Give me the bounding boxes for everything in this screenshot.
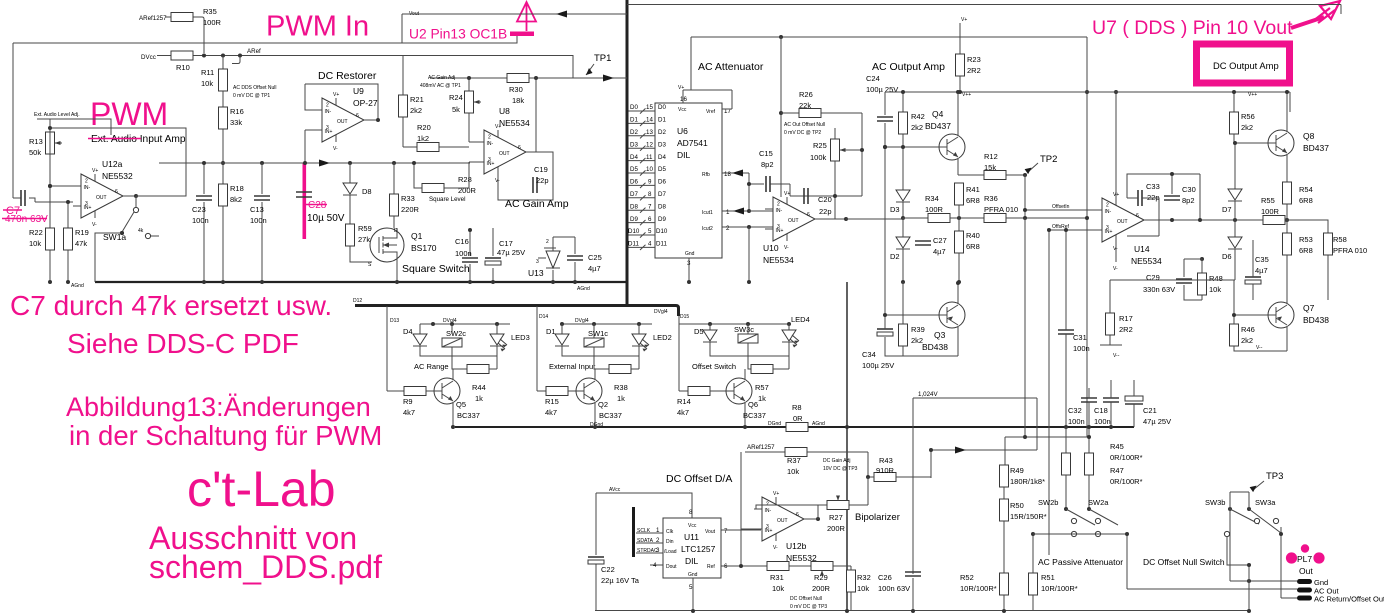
svg-text:DGnd: DGnd <box>768 421 781 427</box>
svg-text:V++: V++ <box>1248 92 1257 98</box>
svg-text:Rfb: Rfb <box>702 172 710 178</box>
svg-text:2k2: 2k2 <box>1241 336 1253 345</box>
svg-text:OffsetIn: OffsetIn <box>1052 204 1070 210</box>
svg-text:5: 5 <box>689 584 693 591</box>
svg-text:22p: 22p <box>819 207 832 216</box>
svg-text:2: 2 <box>726 225 730 232</box>
svg-text:NE5532: NE5532 <box>102 171 133 181</box>
svg-text:R14: R14 <box>677 397 691 406</box>
svg-text:DVgl4: DVgl4 <box>654 309 668 315</box>
svg-text:R31: R31 <box>770 573 784 582</box>
svg-text:AGnd: AGnd <box>577 286 590 292</box>
svg-text:4: 4 <box>648 241 652 248</box>
svg-text:47k: 47k <box>75 239 87 248</box>
svg-text:D0: D0 <box>658 104 666 111</box>
svg-text:Vout: Vout <box>705 529 716 535</box>
svg-text:/Load: /Load <box>664 549 677 555</box>
svg-text:SW3a: SW3a <box>1255 498 1276 507</box>
svg-text:C29: C29 <box>1146 273 1160 282</box>
svg-text:10: 10 <box>646 166 653 173</box>
svg-text:10µ 50V: 10µ 50V <box>307 213 345 224</box>
svg-text:NE5534: NE5534 <box>499 118 530 128</box>
svg-text:Din: Din <box>666 539 674 545</box>
svg-text:13: 13 <box>646 129 653 136</box>
svg-text:200R: 200R <box>458 186 477 195</box>
svg-text:DC Gain Adj: DC Gain Adj <box>823 458 851 464</box>
svg-text:C32: C32 <box>1068 406 1082 415</box>
svg-text:C25: C25 <box>588 253 602 262</box>
svg-text:R13: R13 <box>29 137 43 146</box>
svg-text:D8: D8 <box>658 203 666 210</box>
svg-text:12: 12 <box>646 141 653 148</box>
svg-text:C26: C26 <box>878 573 892 582</box>
svg-text:R48: R48 <box>1209 274 1223 283</box>
svg-text:U7 ( DDS ) Pin 10 Vout: U7 ( DDS ) Pin 10 Vout <box>1092 17 1293 39</box>
svg-text:8p2: 8p2 <box>761 160 774 169</box>
svg-text:D1: D1 <box>630 117 638 124</box>
svg-text:C31: C31 <box>1073 333 1087 342</box>
svg-text:C7 durch 47k ersetzt usw.: C7 durch 47k ersetzt usw. <box>10 290 332 321</box>
svg-text:Ref: Ref <box>707 564 715 570</box>
svg-text:External Input: External Input <box>549 362 596 371</box>
svg-text:DC Restorer: DC Restorer <box>318 70 377 82</box>
svg-text:2: 2 <box>546 239 549 245</box>
svg-text:BC337: BC337 <box>743 411 766 420</box>
svg-text:D8: D8 <box>630 203 638 210</box>
svg-text:ARef1257: ARef1257 <box>747 444 775 451</box>
svg-text:U8: U8 <box>499 106 510 116</box>
svg-text:27k: 27k <box>358 235 370 244</box>
svg-text:8: 8 <box>648 191 652 198</box>
svg-text:100R: 100R <box>925 205 944 214</box>
svg-text:4k: 4k <box>138 228 144 234</box>
svg-text:C33: C33 <box>1146 182 1160 191</box>
svg-text:D13: D13 <box>390 318 399 324</box>
svg-text:R49: R49 <box>1010 466 1024 475</box>
svg-text:R36: R36 <box>984 194 998 203</box>
svg-text:U13: U13 <box>528 268 544 278</box>
svg-text:D3: D3 <box>658 141 666 148</box>
svg-text:10V DC @ TP3: 10V DC @ TP3 <box>823 466 858 472</box>
svg-text:100n: 100n <box>192 216 209 225</box>
svg-text:D3: D3 <box>890 205 900 214</box>
svg-text:R17: R17 <box>1119 314 1133 323</box>
svg-text:100n: 100n <box>1094 417 1111 426</box>
svg-text:Vcc: Vcc <box>688 523 697 529</box>
svg-text:SW3b: SW3b <box>1205 498 1225 507</box>
svg-text:R55: R55 <box>1261 196 1275 205</box>
svg-text:1k2: 1k2 <box>417 134 429 143</box>
svg-text:1k: 1k <box>475 394 483 403</box>
svg-text:6R8: 6R8 <box>1299 196 1313 205</box>
svg-text:200R: 200R <box>812 584 831 593</box>
svg-text:C23: C23 <box>192 205 206 214</box>
svg-text:D11: D11 <box>628 241 639 248</box>
svg-text:AC Passive Attenuator: AC Passive Attenuator <box>1038 557 1123 567</box>
svg-text:D5: D5 <box>630 166 638 173</box>
svg-text:10k: 10k <box>1209 285 1221 294</box>
svg-text:D9: D9 <box>630 216 638 223</box>
svg-text:4µ7: 4µ7 <box>933 247 946 256</box>
svg-text:NE5534: NE5534 <box>763 255 794 265</box>
svg-text:0R/100R*: 0R/100R* <box>1110 477 1143 486</box>
svg-text:D11: D11 <box>656 241 667 248</box>
svg-text:V+: V+ <box>678 85 684 91</box>
svg-text:Clk: Clk <box>666 529 674 535</box>
svg-text:AVcc: AVcc <box>609 487 621 493</box>
svg-text:R40: R40 <box>966 231 980 240</box>
svg-text:2k2: 2k2 <box>911 123 923 132</box>
svg-text:D15: D15 <box>680 314 689 320</box>
svg-text:V--: V-- <box>1113 353 1120 359</box>
svg-text:15k: 15k <box>984 163 996 172</box>
svg-text:AC Out Offset Null: AC Out Offset Null <box>784 122 825 128</box>
svg-text:100n: 100n <box>1073 344 1090 353</box>
svg-text:2R2: 2R2 <box>1119 325 1133 334</box>
svg-text:R32: R32 <box>857 573 871 582</box>
svg-text:R30: R30 <box>509 85 523 94</box>
svg-text:7: 7 <box>648 203 652 210</box>
svg-text:100n 63V: 100n 63V <box>878 584 910 593</box>
svg-text:47µ 25V: 47µ 25V <box>1143 417 1171 426</box>
svg-text:AC DDS Offset Null: AC DDS Offset Null <box>233 85 277 91</box>
svg-text:6R8: 6R8 <box>966 196 980 205</box>
svg-text:C28: C28 <box>308 200 327 211</box>
svg-text:408mV AC @ TP1: 408mV AC @ TP1 <box>420 83 461 89</box>
svg-text:Out: Out <box>1299 566 1313 576</box>
svg-text:BS170: BS170 <box>411 243 437 253</box>
svg-text:10R/100R*: 10R/100R* <box>1041 584 1078 593</box>
svg-text:D: D <box>394 228 398 234</box>
svg-text:R26: R26 <box>799 90 813 99</box>
svg-text:15: 15 <box>646 104 653 111</box>
svg-text:R18: R18 <box>230 184 244 193</box>
svg-text:OP-27: OP-27 <box>353 98 378 108</box>
svg-text:DIL: DIL <box>685 556 699 566</box>
svg-text:1: 1 <box>726 209 730 216</box>
svg-text:R23: R23 <box>967 55 981 64</box>
svg-text:C15: C15 <box>759 149 773 158</box>
svg-text:Bipolarizer: Bipolarizer <box>855 512 900 523</box>
svg-text:180R/1k8*: 180R/1k8* <box>1010 477 1045 486</box>
svg-text:100k: 100k <box>810 153 827 162</box>
svg-text:1k: 1k <box>758 394 766 403</box>
svg-text:D8: D8 <box>362 187 372 196</box>
svg-text:50k: 50k <box>29 148 41 157</box>
svg-text:SW2a: SW2a <box>1088 498 1109 507</box>
svg-text:DC Offset D/A: DC Offset D/A <box>666 473 732 485</box>
svg-text:Q7: Q7 <box>1303 303 1315 313</box>
svg-text:DVgl4: DVgl4 <box>443 318 457 324</box>
svg-text:R41: R41 <box>966 185 980 194</box>
svg-text:D9: D9 <box>658 216 666 223</box>
svg-text:Icut2: Icut2 <box>702 226 713 232</box>
svg-text:R44: R44 <box>472 383 486 392</box>
svg-text:C24: C24 <box>866 74 880 83</box>
svg-text:1,024V: 1,024V <box>918 391 938 398</box>
svg-text:TP3: TP3 <box>1266 471 1283 482</box>
svg-text:C20: C20 <box>818 195 832 204</box>
svg-text:U14: U14 <box>1134 244 1150 254</box>
svg-text:V+: V+ <box>961 17 967 23</box>
svg-text:D7: D7 <box>658 191 666 198</box>
svg-text:AC Return/Offset Out: AC Return/Offset Out <box>1314 595 1384 604</box>
svg-text:U10: U10 <box>763 243 779 253</box>
svg-text:BC337: BC337 <box>457 411 480 420</box>
svg-text:10k: 10k <box>201 79 213 88</box>
svg-text:D6: D6 <box>630 179 638 186</box>
svg-text:R37: R37 <box>787 456 801 465</box>
svg-text:PFRA 010: PFRA 010 <box>984 205 1018 214</box>
svg-text:schem_DDS.pdf: schem_DDS.pdf <box>149 549 382 585</box>
svg-text:0R: 0R <box>793 414 803 423</box>
svg-text:33k: 33k <box>230 118 242 127</box>
svg-text:Square Level: Square Level <box>429 196 465 203</box>
svg-text:D10: D10 <box>628 228 640 235</box>
svg-text:AC Attenuator: AC Attenuator <box>698 61 764 73</box>
svg-text:R27: R27 <box>829 513 843 522</box>
svg-text:D2: D2 <box>630 129 638 136</box>
svg-text:100n: 100n <box>455 249 472 258</box>
svg-text:D12: D12 <box>353 298 362 304</box>
svg-text:Q6: Q6 <box>748 400 758 409</box>
svg-text:2k2: 2k2 <box>1241 123 1253 132</box>
svg-text:8k2: 8k2 <box>230 195 242 204</box>
svg-text:TP2: TP2 <box>1040 154 1057 165</box>
svg-text:18: 18 <box>724 171 731 178</box>
svg-text:R11: R11 <box>201 68 214 77</box>
svg-text:U2 Pin13 OC1B: U2 Pin13 OC1B <box>409 27 507 42</box>
svg-text:4k7: 4k7 <box>677 408 689 417</box>
svg-text:C17: C17 <box>499 239 513 248</box>
svg-text:R24: R24 <box>449 93 463 102</box>
svg-text:7: 7 <box>724 528 728 535</box>
svg-text:100R: 100R <box>203 18 222 27</box>
svg-text:D0: D0 <box>630 104 638 111</box>
svg-text:D2: D2 <box>890 252 900 261</box>
svg-text:22p: 22p <box>536 176 549 185</box>
svg-text:DC Offset Null Switch: DC Offset Null Switch <box>1143 557 1225 567</box>
svg-text:SW2c: SW2c <box>446 329 466 338</box>
svg-text:22k: 22k <box>799 101 811 110</box>
svg-text:D5: D5 <box>658 166 666 173</box>
svg-text:V++: V++ <box>962 92 971 98</box>
svg-text:R25: R25 <box>813 141 827 150</box>
svg-text:U11: U11 <box>684 532 699 542</box>
svg-text:R57: R57 <box>755 383 769 392</box>
svg-text:R56: R56 <box>1241 112 1255 121</box>
svg-text:R46: R46 <box>1241 325 1255 334</box>
svg-text:D2: D2 <box>658 129 666 136</box>
svg-text:0 mV DC @ TP2: 0 mV DC @ TP2 <box>784 130 821 136</box>
svg-text:0 mV DC @ TP1: 0 mV DC @ TP1 <box>233 93 270 99</box>
svg-text:LTC1257: LTC1257 <box>681 544 716 554</box>
svg-text:R12: R12 <box>984 152 998 161</box>
svg-text:AD7541: AD7541 <box>677 138 708 148</box>
svg-text:D4: D4 <box>403 327 413 336</box>
svg-text:DVgl4: DVgl4 <box>575 318 589 324</box>
svg-text:R42: R42 <box>911 112 925 121</box>
svg-text:100R: 100R <box>1261 207 1280 216</box>
svg-text:PL7: PL7 <box>1297 554 1312 564</box>
svg-text:BC337: BC337 <box>599 411 622 420</box>
svg-text:2k2: 2k2 <box>410 106 422 115</box>
svg-text:D5: D5 <box>694 327 704 336</box>
svg-text:BD437: BD437 <box>1303 143 1329 153</box>
svg-text:U9: U9 <box>353 86 364 96</box>
svg-text:D1: D1 <box>658 117 666 124</box>
svg-text:D1: D1 <box>546 327 556 336</box>
svg-text:SW3c: SW3c <box>734 325 754 334</box>
svg-text:R29: R29 <box>814 573 828 582</box>
svg-text:11: 11 <box>646 154 653 161</box>
svg-text:LED3: LED3 <box>511 333 530 342</box>
svg-text:3: 3 <box>536 259 539 265</box>
svg-text:18k: 18k <box>512 96 524 105</box>
svg-text:R9: R9 <box>403 397 413 406</box>
svg-text:2k2: 2k2 <box>911 336 923 345</box>
svg-text:Q8: Q8 <box>1303 131 1315 141</box>
svg-text:4k7: 4k7 <box>403 408 415 417</box>
svg-text:Siehe DDS-C PDF: Siehe DDS-C PDF <box>67 328 299 359</box>
svg-text:100n: 100n <box>250 216 267 225</box>
svg-text:Abbildung13:Änderungen: Abbildung13:Änderungen <box>66 392 371 422</box>
svg-text:6R8: 6R8 <box>966 242 980 251</box>
svg-text:PWM In: PWM In <box>266 11 369 43</box>
svg-text:D4: D4 <box>630 154 638 161</box>
svg-text:4µ7: 4µ7 <box>1255 266 1268 275</box>
svg-text:DC Offset Null: DC Offset Null <box>790 596 822 602</box>
svg-text:0 mV DC @ TP3: 0 mV DC @ TP3 <box>790 604 827 610</box>
svg-text:D6: D6 <box>658 179 666 186</box>
svg-text:Q3: Q3 <box>934 330 946 340</box>
svg-text:15R/150R*: 15R/150R* <box>1010 512 1047 521</box>
svg-text:Ext. Audio Input Amp: Ext. Audio Input Amp <box>91 134 186 145</box>
svg-text:C34: C34 <box>862 350 876 359</box>
svg-text:D10: D10 <box>656 228 668 235</box>
svg-text:10k: 10k <box>29 239 41 248</box>
svg-text:TP1: TP1 <box>594 53 611 64</box>
svg-text:C19: C19 <box>534 165 548 174</box>
svg-text:AC Output Amp: AC Output Amp <box>872 61 945 73</box>
svg-text:R19: R19 <box>75 228 89 237</box>
svg-text:5: 5 <box>648 228 652 235</box>
svg-text:PFRA 010: PFRA 010 <box>1333 246 1367 255</box>
svg-text:Offset Switch: Offset Switch <box>692 362 736 371</box>
svg-text:in der Schaltung für PWM: in der Schaltung für PWM <box>69 420 382 451</box>
svg-text:C13: C13 <box>250 205 264 214</box>
svg-text:R58: R58 <box>1333 235 1347 244</box>
svg-text:100n: 100n <box>1068 417 1085 426</box>
svg-text:6: 6 <box>648 216 652 223</box>
svg-text:Q1: Q1 <box>411 231 423 241</box>
svg-text:C30: C30 <box>1182 185 1196 194</box>
svg-text:D7: D7 <box>630 191 638 198</box>
svg-text:R20: R20 <box>417 123 431 132</box>
svg-text:2R2: 2R2 <box>967 66 981 75</box>
svg-text:R45: R45 <box>1110 442 1124 451</box>
svg-text:C16: C16 <box>455 237 469 246</box>
svg-text:ARef1257: ARef1257 <box>139 15 167 22</box>
svg-text:AC Gain Amp: AC Gain Amp <box>505 198 569 210</box>
svg-text:C35: C35 <box>1255 255 1269 264</box>
svg-text:910R: 910R <box>876 466 895 475</box>
svg-text:Q2: Q2 <box>598 400 608 409</box>
svg-text:470n 63V: 470n 63V <box>5 214 48 225</box>
svg-text:D6: D6 <box>1222 252 1232 261</box>
svg-text:Gnd: Gnd <box>685 251 695 257</box>
svg-text:0R/100R*: 0R/100R* <box>1110 453 1143 462</box>
svg-text:C18: C18 <box>1094 406 1108 415</box>
svg-text:R50: R50 <box>1010 501 1024 510</box>
svg-text:14: 14 <box>646 117 653 124</box>
svg-text:NE5534: NE5534 <box>1131 256 1162 266</box>
svg-text:U12a: U12a <box>102 159 123 169</box>
svg-text:ARef: ARef <box>247 48 261 55</box>
svg-text:R53: R53 <box>1299 235 1313 244</box>
svg-text:Q4: Q4 <box>932 109 944 119</box>
svg-text:D3: D3 <box>630 141 638 148</box>
svg-text:U6: U6 <box>677 126 688 136</box>
svg-text:R10: R10 <box>176 63 190 72</box>
svg-text:Square Switch: Square Switch <box>402 263 470 275</box>
svg-text:Dout: Dout <box>666 564 677 570</box>
svg-text:4µ7: 4µ7 <box>588 264 601 273</box>
svg-text:AC Gain Adj: AC Gain Adj <box>428 75 455 81</box>
svg-text:V--: V-- <box>1256 345 1263 351</box>
svg-text:R33: R33 <box>401 194 415 203</box>
svg-text:R43: R43 <box>879 456 893 465</box>
svg-text:22µ 16V Ta: 22µ 16V Ta <box>601 576 640 585</box>
svg-text:LED4: LED4 <box>791 315 810 324</box>
svg-text:1k: 1k <box>617 394 625 403</box>
svg-text:Icut1: Icut1 <box>702 210 713 216</box>
svg-text:R47: R47 <box>1110 466 1124 475</box>
svg-text:AGnd: AGnd <box>71 283 84 289</box>
svg-text:c't-Lab: c't-Lab <box>187 461 336 517</box>
svg-text:10k: 10k <box>772 584 784 593</box>
svg-text:R54: R54 <box>1299 185 1313 194</box>
svg-text:Vcc: Vcc <box>678 107 687 113</box>
svg-text:DVcc: DVcc <box>141 54 156 61</box>
svg-text:AGnd: AGnd <box>812 421 825 427</box>
svg-text:220R: 220R <box>401 205 420 214</box>
svg-text:R39: R39 <box>911 325 925 334</box>
svg-text:10k: 10k <box>857 584 869 593</box>
svg-text:C27: C27 <box>933 236 947 245</box>
svg-text:100µ 25V: 100µ 25V <box>866 85 898 94</box>
svg-text:47µ 25V: 47µ 25V <box>497 248 525 257</box>
svg-text:AC Range: AC Range <box>414 362 449 371</box>
svg-text:R8: R8 <box>792 403 802 412</box>
svg-text:SW2b: SW2b <box>1038 498 1058 507</box>
svg-text:R59: R59 <box>358 224 372 233</box>
svg-text:R22: R22 <box>29 228 43 237</box>
svg-text:8p2: 8p2 <box>1182 196 1195 205</box>
svg-text:10R/100R*: 10R/100R* <box>960 584 997 593</box>
svg-text:LED2: LED2 <box>653 333 672 342</box>
svg-text:R52: R52 <box>960 573 974 582</box>
svg-text:Q5: Q5 <box>456 400 466 409</box>
svg-text:R28: R28 <box>458 175 472 184</box>
svg-text:9: 9 <box>648 179 652 186</box>
svg-text:BD437: BD437 <box>925 121 951 131</box>
svg-text:C21: C21 <box>1143 406 1157 415</box>
svg-text:R21: R21 <box>410 95 424 104</box>
svg-text:PWM: PWM <box>90 96 168 132</box>
svg-text:BD438: BD438 <box>922 342 948 352</box>
svg-text:DC Output Amp: DC Output Amp <box>1213 60 1279 71</box>
